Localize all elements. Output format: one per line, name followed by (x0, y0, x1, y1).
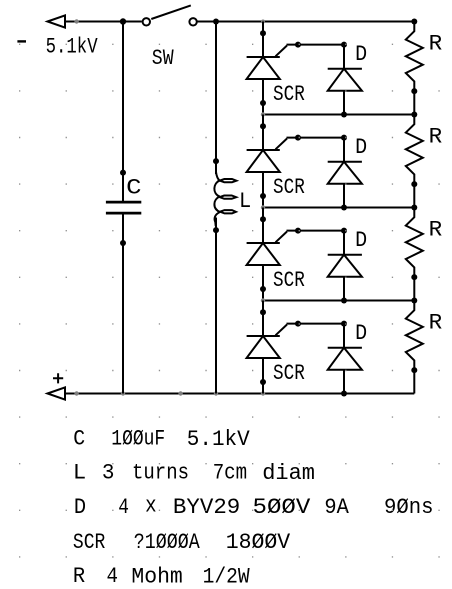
junction SCR column bottom (261, 391, 265, 395)
svg-text:1/2W: 1/2W (203, 563, 251, 589)
switch SW (143, 5, 197, 25)
svg-text:Mohm: Mohm (131, 563, 182, 589)
SCR2 (thyristor) (247, 115, 287, 208)
resistor R2 (406, 112, 423, 208)
svg-text:SCR: SCR (273, 174, 305, 200)
terminal arrow (negative input) (48, 15, 66, 27)
svg-text:9A: 9A (324, 494, 349, 520)
wire inductor branch upper (215, 22, 217, 175)
svg-text:D: D (355, 227, 367, 253)
svg-text:R: R (429, 30, 443, 56)
SCR4 (thyristor) (247, 301, 287, 394)
svg-text:SCR: SCR (273, 360, 305, 386)
diode D4 (328, 321, 362, 397)
svg-text:BYV29: BYV29 (173, 494, 240, 520)
svg-text:1ØØuF: 1ØØuF (111, 425, 165, 451)
wire top rail left (65, 19, 142, 23)
label minus sign (17, 40, 26, 42)
svg-text:5ØØV: 5ØØV (253, 494, 311, 520)
svg-text:SCR: SCR (273, 267, 305, 293)
svg-text:D: D (355, 41, 367, 67)
svg-text:18ØØV: 18ØØV (226, 529, 291, 555)
wire stage 4 top rail (261, 298, 415, 302)
svg-text:4: 4 (118, 494, 129, 520)
svg-text:R: R (429, 123, 443, 149)
svg-text:R: R (429, 216, 443, 242)
capacitor C (106, 170, 141, 246)
wire stage 2 top rail (261, 112, 415, 116)
wire top rail right (197, 21, 414, 23)
svg-text:R: R (429, 309, 443, 335)
svg-text:7cm: 7cm (213, 459, 247, 485)
label + (53, 373, 63, 383)
svg-text:L: L (73, 459, 86, 485)
wire SCR1 gate to D1 (287, 42, 345, 48)
svg-text:SW: SW (152, 45, 174, 71)
SCR1 (thyristor) (247, 22, 287, 115)
svg-text:9Øns: 9Øns (384, 494, 434, 520)
resistor R1 (406, 19, 423, 115)
svg-text:4: 4 (107, 563, 119, 589)
svg-text:D: D (74, 494, 86, 520)
wire capacitor branch lower (122, 214, 124, 394)
svg-text:L: L (239, 188, 251, 214)
junction capacitor bottom (121, 391, 125, 395)
svg-text:R: R (73, 563, 85, 589)
svg-text:SCR: SCR (273, 81, 305, 107)
svg-text:turns: turns (132, 459, 189, 485)
wire SCR2 gate to D2 (287, 135, 345, 141)
diode D1 (328, 42, 362, 118)
svg-text:C: C (73, 425, 85, 451)
svg-text:D: D (355, 320, 367, 346)
svg-text:?1ØØØA: ?1ØØØA (134, 529, 200, 555)
resistor R4 (406, 298, 423, 394)
svg-text:x: x (145, 493, 157, 519)
resistor R3 (406, 205, 423, 301)
svg-text:SCR: SCR (73, 529, 105, 555)
wire SCR4 gate to D4 (287, 321, 345, 327)
wire capacitor branch upper (122, 22, 124, 202)
inductor L (213, 158, 236, 233)
svg-text:5.1kV: 5.1kV (46, 34, 98, 60)
svg-text:D: D (355, 134, 367, 160)
svg-text:diam: diam (262, 460, 315, 486)
wire inductor branch lower (215, 218, 217, 394)
junction capacitor top (120, 18, 126, 24)
wire SCR3 gate to D3 (287, 228, 345, 234)
wire bottom rail (65, 391, 414, 395)
diode D2 (328, 135, 362, 211)
svg-text:5.1kV: 5.1kV (187, 426, 250, 452)
junction inductor top (213, 19, 219, 25)
SCR3 (thyristor) (247, 208, 287, 301)
junction inductor bottom (214, 391, 218, 395)
diode D3 (328, 228, 362, 304)
terminal arrow (positive output) (48, 387, 66, 399)
wire stage 3 top rail (261, 205, 415, 209)
junction SCR column top (261, 20, 265, 24)
svg-text:C: C (126, 174, 141, 200)
